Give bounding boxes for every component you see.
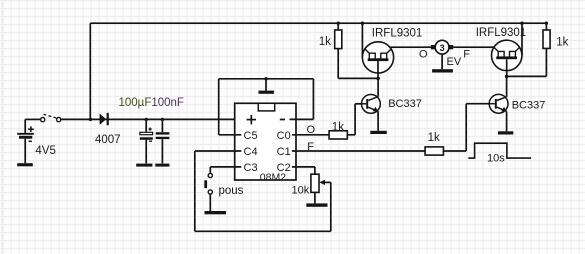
svg-text:O: O [419, 49, 428, 61]
wire loop to potentiometer wiper arrow [319, 180, 331, 185]
svg-text:08M2: 08M2 [260, 172, 286, 184]
ground (EV) [432, 69, 453, 72]
ground (C1) [136, 164, 152, 167]
svg-text:1k: 1k [428, 132, 440, 144]
diode D1 [100, 113, 108, 125]
transistor Q2 BC337 [489, 94, 508, 113]
svg-text:4007: 4007 [95, 134, 121, 146]
ground (Q2) [498, 131, 513, 134]
wire C0 pin to resistor R4 [292, 134, 329, 136]
svg-text:3: 3 [440, 43, 445, 53]
resistor R4 1k [329, 131, 347, 139]
wire C4 pin to wiper loop [195, 151, 331, 231]
mosfet M2 IRFL9301 [492, 40, 522, 76]
node junction M1 gate / Q1 collector [376, 77, 380, 81]
wire EV to ground [441, 54, 443, 69]
wire battery to switch [25, 118, 40, 120]
pin + [247, 115, 256, 124]
wire R4 to Q1 base [347, 104, 366, 135]
svg-text:1k: 1k [332, 121, 344, 133]
wire R2 to M2 gate node [507, 48, 547, 76]
ground (button) [205, 211, 227, 214]
node junction rail / M1 source [361, 22, 364, 25]
svg-text:C0: C0 [277, 130, 291, 142]
svg-text:F: F [463, 48, 470, 60]
wire potentiometer to ground [314, 192, 316, 203]
node junction capacitor C2 [161, 118, 164, 121]
wire R3 to Q2 base [443, 104, 495, 151]
capacitor C2 100nF [156, 119, 170, 163]
transistor Q1 BC337 [361, 95, 380, 114]
wire Q1 collector to gate node [377, 78, 379, 96]
svg-text:C5: C5 [244, 130, 258, 142]
switch S1 [41, 114, 61, 121]
svg-text:100µF100nF: 100µF100nF [119, 97, 184, 109]
resistor R2 1k [543, 23, 550, 48]
battery B1 [17, 119, 34, 163]
svg-text:1k: 1k [319, 36, 331, 48]
svg-text:pous: pous [219, 185, 244, 197]
svg-text:10k: 10k [292, 185, 310, 197]
svg-text:C4: C4 [244, 146, 258, 158]
waveform annotation 10s pulse [468, 143, 531, 158]
resistor R3 1k [425, 147, 443, 155]
pin - [280, 119, 285, 121]
wire ground net to pin - [290, 79, 314, 120]
wire rail to M2 source [521, 23, 523, 55]
wire C5 pin to ground net [219, 79, 314, 135]
node junction rail / M2 source [520, 22, 523, 25]
svg-text:C3: C3 [244, 162, 258, 174]
wire +V top rail [90, 22, 546, 24]
wire M1 drain to EV [390, 46, 431, 48]
wire C2 pin to potentiometer [292, 167, 315, 174]
wire R1 to gate node [338, 49, 378, 79]
svg-text:IRFL9301: IRFL9301 [476, 27, 527, 39]
svg-text:C1: C1 [277, 146, 291, 158]
wire C1 pin to resistor R3 [292, 150, 425, 152]
node junction rail / resistor R1 [337, 22, 340, 25]
svg-text:10s: 10s [487, 153, 505, 165]
svg-text:BC337: BC337 [388, 98, 422, 110]
ground (battery) [17, 163, 33, 166]
wire rail riser to main node [89, 23, 91, 119]
solenoid valve EV [431, 40, 453, 54]
node junction rail / diode anode [89, 118, 92, 121]
wire Q1 emitter to ground [377, 111, 379, 131]
node junction capacitor C1 [145, 118, 148, 121]
svg-text:BC337: BC337 [512, 100, 546, 112]
wire button to ground [209, 194, 211, 211]
wire rail to M1 source [361, 23, 363, 57]
svg-text:4V5: 4V5 [35, 145, 55, 157]
wire EV to M2 drain [453, 46, 494, 48]
ground (IC top) [259, 77, 275, 94]
node junction rail / resistor R2 [545, 22, 548, 25]
wire Q2 emitter to ground [506, 111, 508, 131]
svg-text:1k: 1k [556, 37, 568, 49]
wire main supply line [61, 118, 243, 120]
wire gate node to Q2 collector [506, 76, 508, 96]
wire C3 pin to push button [210, 167, 241, 173]
ground (C2) [155, 164, 169, 167]
potentiometer RV1 10k [311, 174, 319, 192]
mosfet M1 IRFL9301 [362, 42, 393, 79]
resistor R1 1k [335, 23, 342, 48]
svg-text:EV: EV [447, 56, 462, 68]
node junction M2 gate / Q2 collector [505, 75, 509, 79]
ground (potentiometer) [306, 203, 327, 206]
push button pous [204, 173, 212, 194]
IC U1 08M2 body [235, 103, 296, 180]
svg-text:IRFL9301: IRFL9301 [372, 28, 423, 40]
ground (Q1) [370, 131, 386, 134]
capacitor C1 100µF [140, 119, 153, 163]
